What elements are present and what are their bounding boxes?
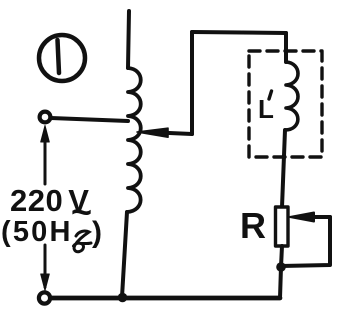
wire: tap up to top [190, 32, 194, 134]
dashed enclosure around L' [249, 51, 322, 157]
svg-text:L: L [258, 94, 274, 124]
terminal (bottom left, open circle) [39, 292, 50, 303]
tap arrow of autotransformer [137, 128, 192, 137]
svg-text:R: R [240, 205, 266, 246]
wire: junction down to bottom wire [280, 267, 281, 298]
terminal (top left, open circle) [40, 112, 51, 123]
junction (rheostat wiper return) [276, 262, 286, 272]
inductor L' winding [285, 62, 298, 130]
wire: top lead of autotransformer [128, 11, 129, 68]
wire: bottom horizontal [51, 296, 280, 301]
junction (autotransformer to bottom wire) [118, 293, 128, 303]
prime mark of L' [269, 91, 272, 99]
svg-text:): ) [92, 216, 102, 249]
wire: L' bottom down to resistor [282, 130, 285, 207]
wire: top horizontal to L' branch [192, 32, 286, 33]
cursive z of Hz [74, 231, 92, 252]
dimension arrow (up, toward top terminal) [41, 126, 50, 185]
wire: down into dashed box [284, 33, 288, 62]
wiper arrow of rheostat [290, 213, 330, 222]
autotransformer T1 winding [127, 68, 141, 212]
wire: top terminal to autotransformer [51, 118, 128, 121]
circled symbol (source indicator) [39, 35, 85, 81]
dimension arrow (down, toward bottom terminal) [41, 245, 50, 291]
resistor R (rheostat body) [276, 207, 289, 246]
wire: resistor bottom to junction [281, 246, 282, 267]
wire: bottom lead of autotransformer [122, 212, 127, 297]
svg-text:~: ~ [71, 191, 92, 232]
svg-text:(50H: (50H [1, 216, 73, 248]
wire: wiper loop right side [281, 217, 330, 266]
